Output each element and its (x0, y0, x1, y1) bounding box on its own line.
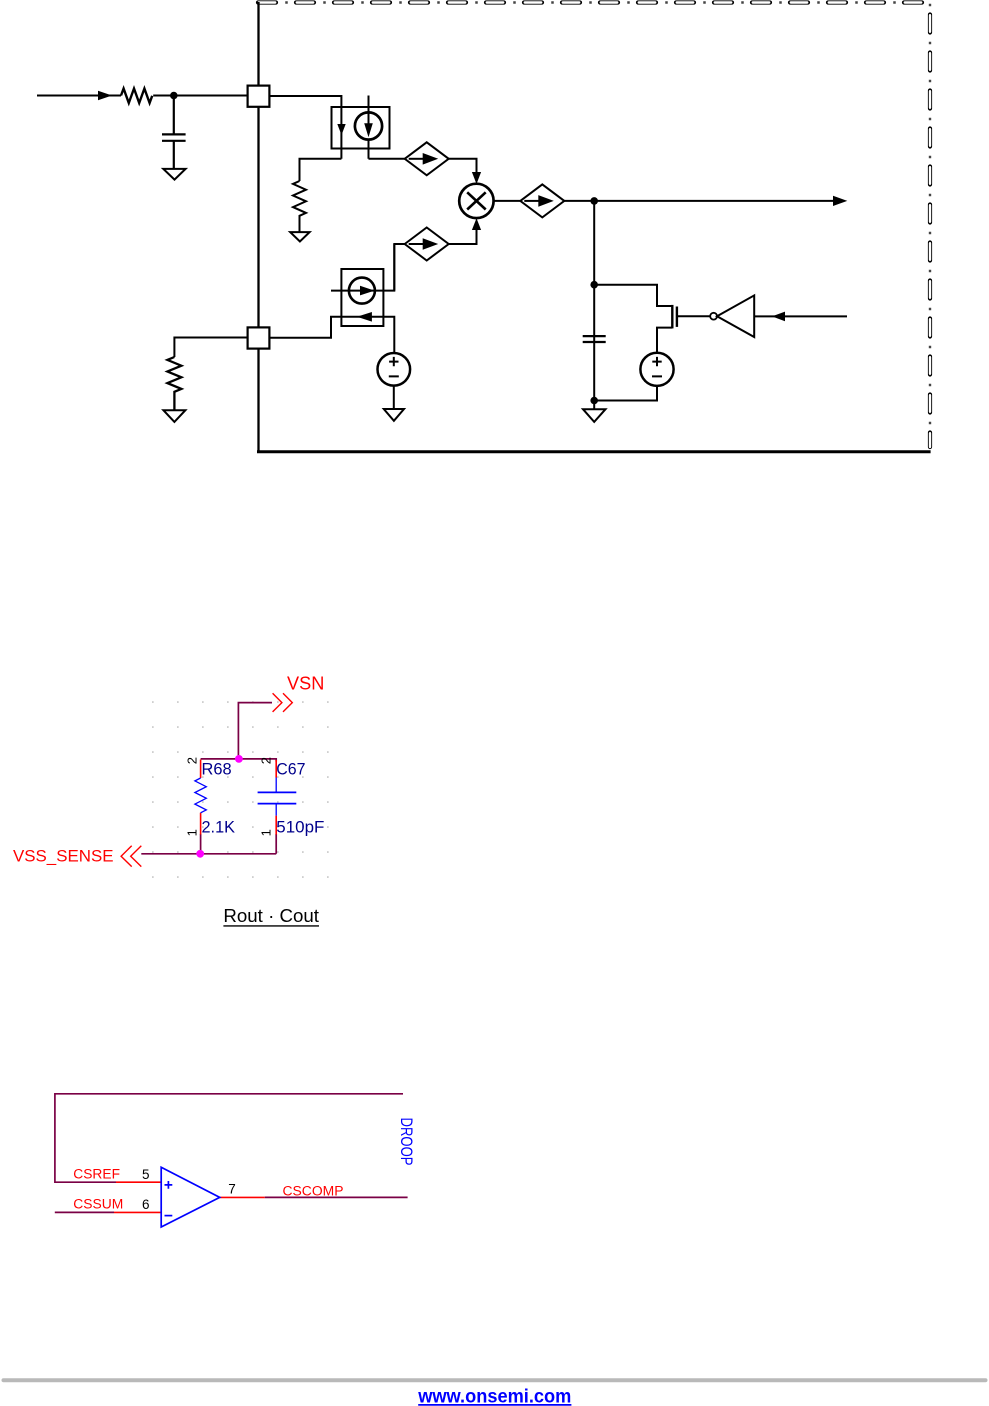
svg-text:7: 7 (228, 1182, 236, 1197)
svg-text:2: 2 (258, 757, 273, 764)
svg-text:VSS_SENSE: VSS_SENSE (13, 847, 114, 866)
svg-text:5: 5 (142, 1167, 150, 1182)
svg-text:Rout · Cout: Rout · Cout (223, 905, 319, 926)
svg-text:C67: C67 (276, 761, 305, 779)
svg-text:CSREF: CSREF (73, 1167, 120, 1182)
svg-text:6: 6 (142, 1197, 150, 1212)
svg-text:DROOP: DROOP (397, 1118, 416, 1166)
svg-text:2: 2 (185, 757, 200, 764)
svg-text:CSCOMP: CSCOMP (283, 1184, 344, 1199)
svg-text:www.onsemi.com: www.onsemi.com (417, 1386, 571, 1406)
svg-text:R68: R68 (202, 761, 232, 779)
svg-text:1: 1 (258, 829, 273, 836)
svg-text:VSN: VSN (287, 674, 324, 694)
svg-text:1: 1 (185, 829, 200, 836)
svg-text:CSSUM: CSSUM (73, 1197, 123, 1212)
svg-text:510pF: 510pF (276, 818, 324, 836)
svg-text:2.1K: 2.1K (202, 818, 236, 836)
